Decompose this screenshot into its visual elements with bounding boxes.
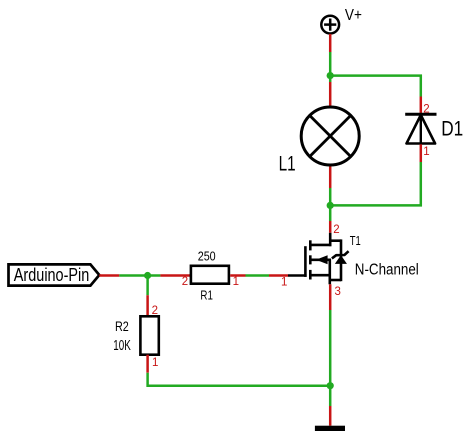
svg-text:1: 1 [152, 357, 158, 369]
wire: Arduino-Pin pin (red) [99, 274, 119, 277]
lamp L1 [301, 107, 359, 165]
wire: V+ to lamp (green) [329, 52, 332, 82]
gate lead [288, 274, 307, 277]
body diode zener cathode bar [332, 251, 349, 258]
wire: junction down to R2 (green) [146, 276, 149, 296]
node: source / R2 bottom junction [327, 382, 334, 389]
drain lead [329, 233, 332, 246]
diode D1 [405, 114, 436, 144]
svg-text:L1: L1 [279, 152, 296, 175]
middle (source) connection with arrow line [310, 258, 330, 261]
wire: ground pin (red) [329, 406, 332, 426]
node: V+ / D1 junction [327, 72, 334, 79]
wire: D1 bottom branch (green) [330, 162, 421, 205]
wire: R2 pin 1 (red) [146, 355, 149, 373]
svg-text:T1: T1 [350, 233, 361, 248]
wire: lamp pin 1 (red) [329, 82, 332, 106]
svg-text:V+: V+ [345, 7, 362, 24]
svg-text:1: 1 [281, 276, 287, 288]
resistor R2 [140, 316, 158, 354]
top channel connection [310, 244, 331, 247]
svg-text:D1: D1 [441, 118, 463, 141]
drain to body-diode branch [329, 239, 341, 242]
svg-text:2: 2 [423, 103, 429, 115]
svg-text:Arduino-Pin: Arduino-Pin [14, 265, 90, 285]
svg-text:1: 1 [233, 276, 239, 288]
wire: T1 pin 1 gate (red) [269, 274, 288, 277]
wire: source down to ground junction (green) [329, 310, 332, 406]
wire: V+ pin (red) [329, 34, 332, 52]
wire: T1 pin 3 source (red) [329, 284, 332, 310]
gate bar [304, 246, 307, 277]
svg-text:2: 2 [152, 305, 158, 317]
svg-text:250: 250 [198, 249, 216, 263]
N-channel arrow [316, 255, 328, 264]
svg-text:1: 1 [423, 146, 429, 158]
ground [315, 426, 345, 431]
bottom channel connection [310, 274, 330, 277]
node: lamp / D1 junction [327, 202, 334, 209]
svg-text:2: 2 [182, 276, 188, 288]
wire: R2 pin 2 (red) [146, 295, 149, 316]
resistor R1 [191, 266, 229, 284]
wire: lamp to T1 drain (green) [329, 188, 332, 221]
wire: T1 pin 2 drain (red) [329, 221, 332, 233]
wire: top branch to D1 (green) [330, 76, 421, 97]
wire: R1 pin 2 (red) [160, 274, 191, 277]
node: Arduino / R2 junction [144, 272, 151, 279]
svg-text:10K: 10K [113, 338, 131, 354]
wire: lamp pin 2 (red) [329, 167, 332, 189]
source lead [328, 259, 331, 285]
body diode triangle [336, 256, 346, 263]
wire: D1 pin 2 (red) [420, 97, 423, 115]
wire: R1 pin 1 (red) [230, 274, 245, 277]
svg-text:N-Channel: N-Channel [355, 262, 419, 279]
source to body-diode bottom branch [329, 279, 341, 282]
wire: to R1 (green) [119, 274, 160, 277]
body diode right vertical [340, 239, 343, 281]
bottom channel bar [309, 270, 312, 280]
wire: R2 to ground rail (green) [148, 373, 331, 386]
net flag Arduino-Pin [9, 264, 100, 285]
wire: D1 pin 1 (red) [420, 144, 423, 162]
power symbol V+ [321, 16, 339, 34]
svg-text:R1: R1 [200, 288, 213, 302]
top channel bar [309, 240, 312, 250]
transistor T1 N-Channel MOSFET [288, 233, 349, 284]
middle channel bar [309, 255, 312, 264]
svg-text:R2: R2 [115, 319, 129, 334]
wire: R1 to T1 gate (green) [246, 274, 270, 277]
svg-text:2: 2 [333, 224, 339, 236]
svg-text:3: 3 [335, 286, 341, 298]
